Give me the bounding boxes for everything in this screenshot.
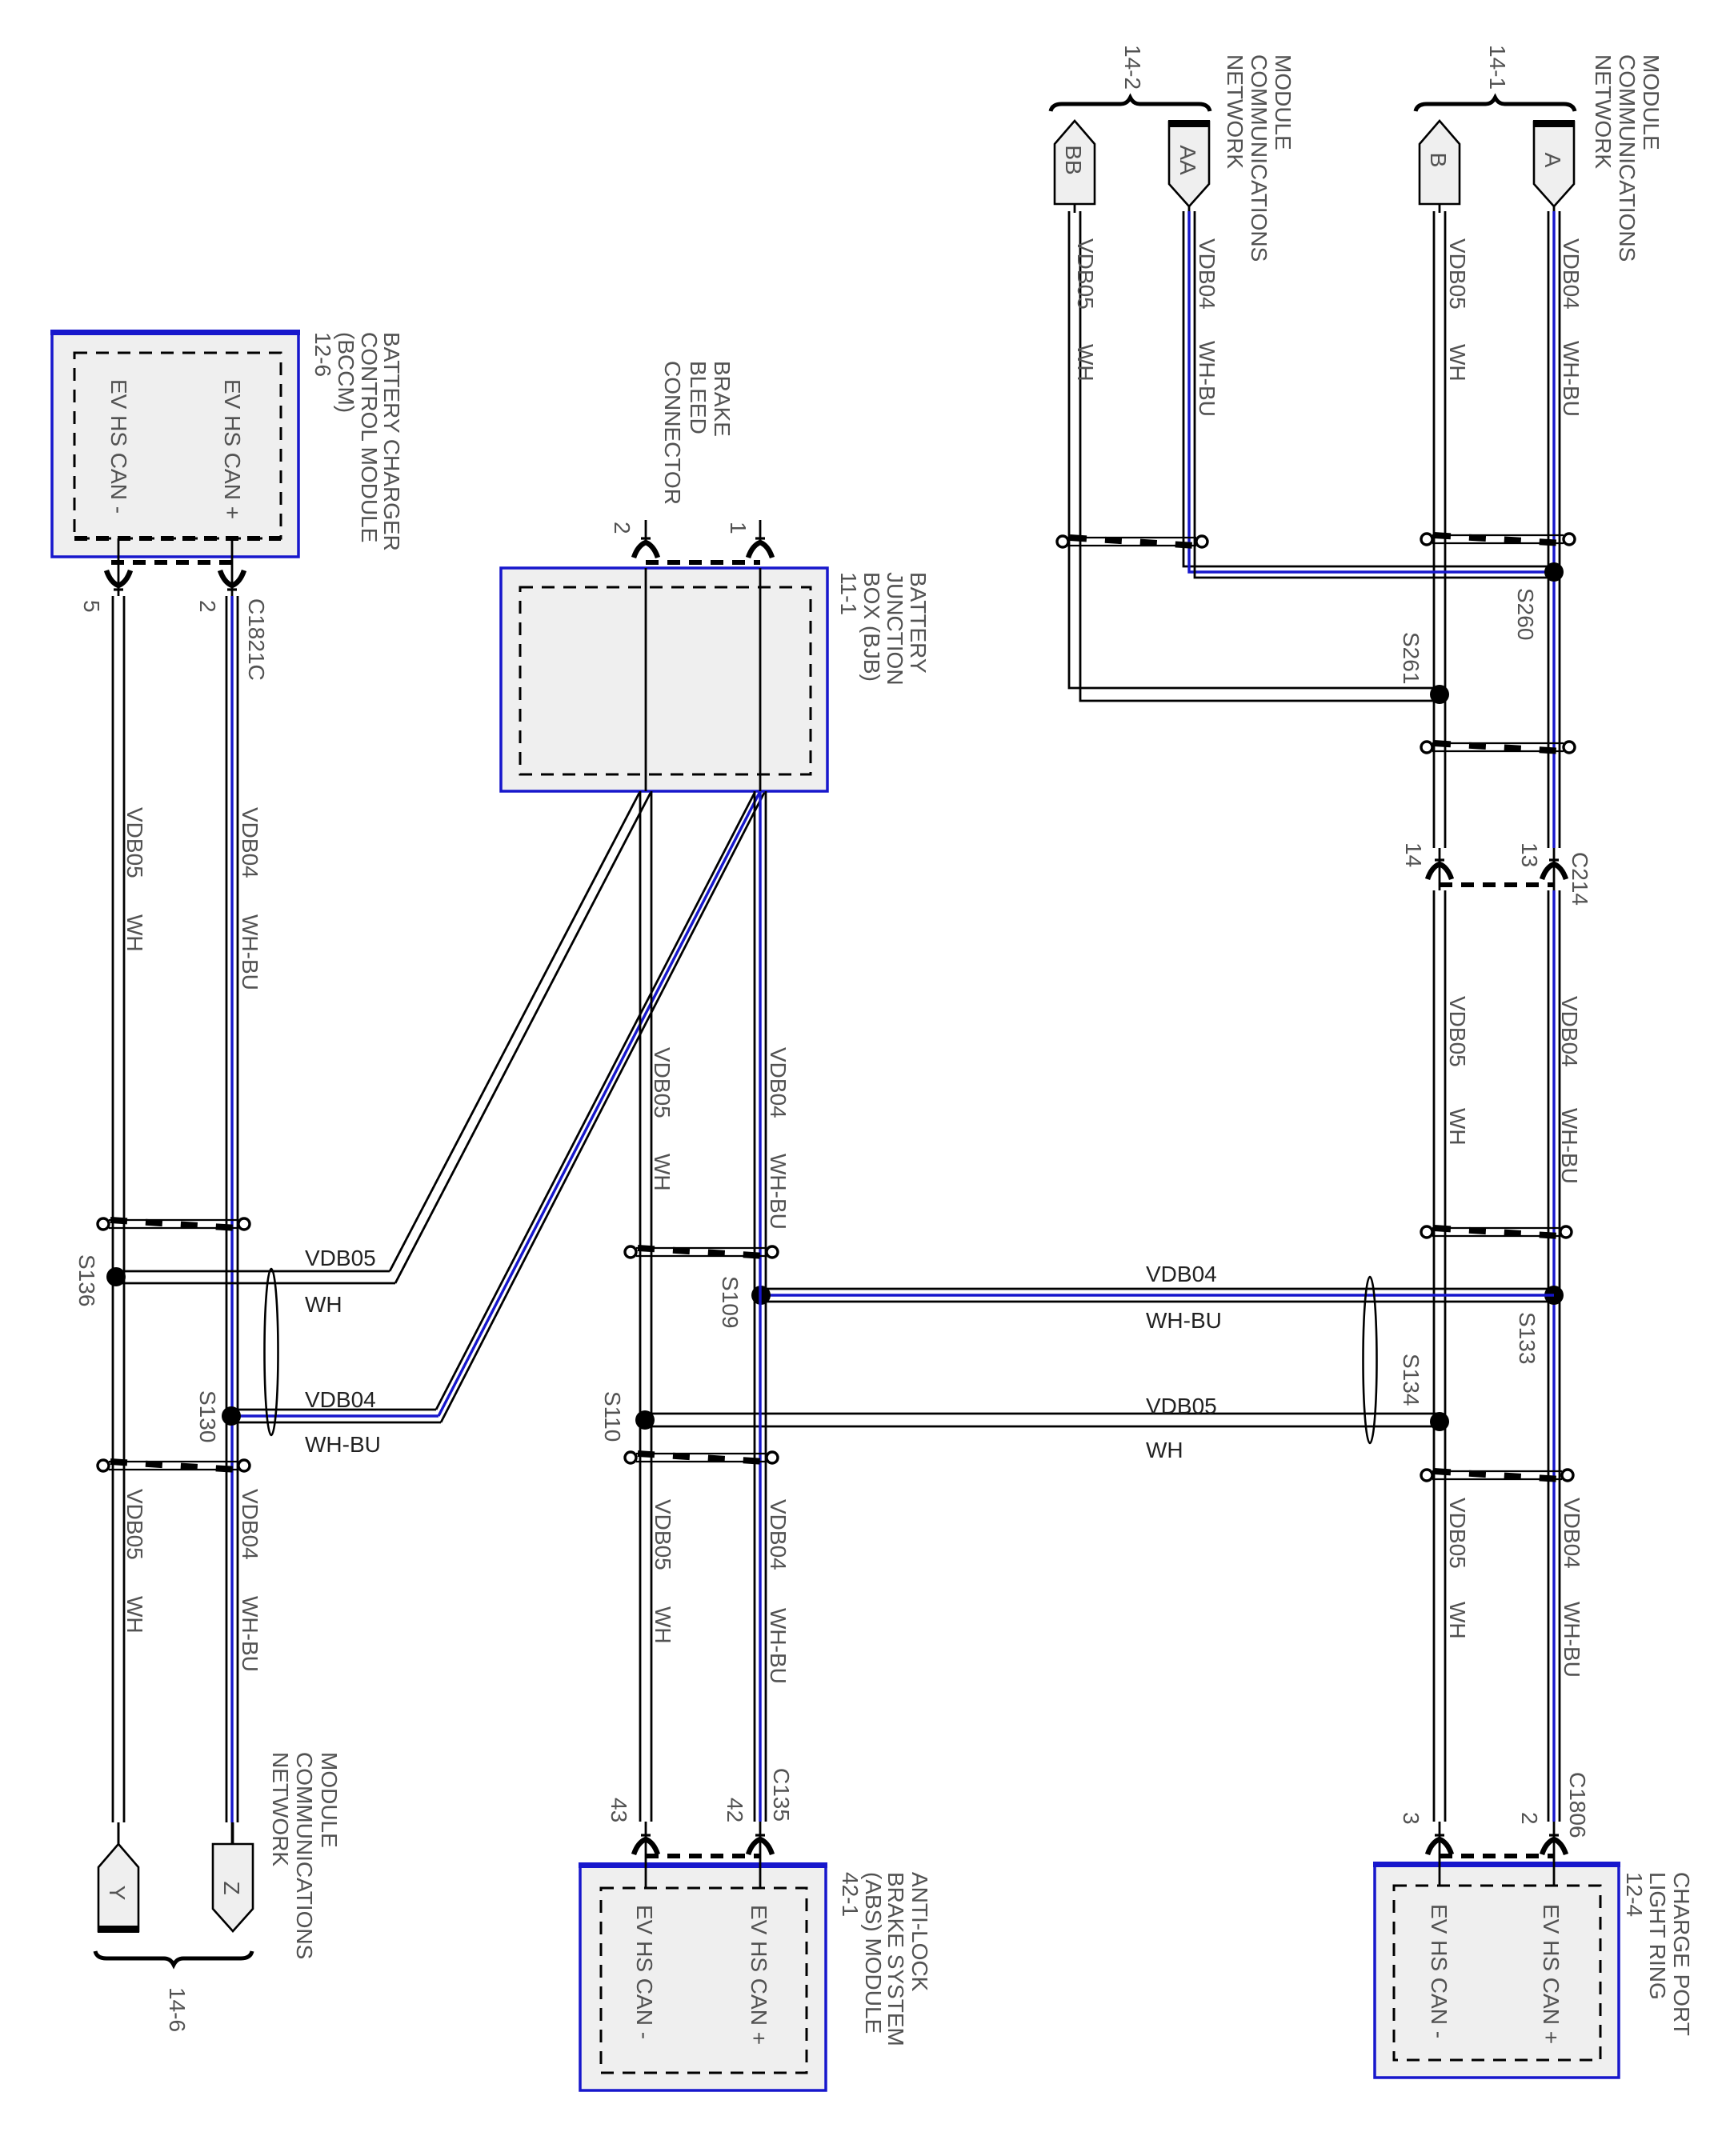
svg-text:5: 5 bbox=[79, 600, 104, 613]
svg-text:WH-BU: WH-BU bbox=[766, 1154, 791, 1230]
svg-text:WH-BU: WH-BU bbox=[238, 914, 262, 990]
svg-text:VDB04: VDB04 bbox=[1146, 1262, 1217, 1286]
svg-text:EV HS CAN -: EV HS CAN - bbox=[106, 379, 131, 514]
wire VDB05 WH from BJB pin 2 to ABS pin 43 bbox=[640, 791, 675, 1822]
svg-text:EV HS CAN +: EV HS CAN + bbox=[747, 1905, 771, 2045]
svg-text:WH-BU: WH-BU bbox=[1146, 1308, 1222, 1333]
twisted pair symbol (S109/S110 pair) bbox=[1364, 1277, 1377, 1443]
splice S260 bbox=[1513, 562, 1564, 640]
svg-text:BRAKE SYSTEM: BRAKE SYSTEM bbox=[883, 1872, 908, 2046]
module box BCCM bbox=[50, 330, 300, 557]
label BATTERY JUNCTION BOX (BJB) 11-1 bbox=[836, 572, 931, 686]
svg-text:S261: S261 bbox=[1399, 632, 1424, 684]
svg-text:S133: S133 bbox=[1515, 1312, 1540, 1364]
label BRAKE BLEED CONNECTOR bbox=[660, 361, 735, 505]
svg-text:NETWORK: NETWORK bbox=[1591, 54, 1616, 169]
splice S109 bbox=[718, 1276, 771, 1328]
brake bleed inline connector (pins 2 and 1) bbox=[610, 520, 772, 562]
svg-text:JUNCTION: JUNCTION bbox=[883, 572, 907, 686]
svg-text:COMMUNICATIONS: COMMUNICATIONS bbox=[1615, 54, 1640, 262]
svg-text:C214: C214 bbox=[1568, 852, 1592, 906]
module box CHARGE PORT LIGHT RING bbox=[1373, 1822, 1620, 2078]
svg-text:VDB05: VDB05 bbox=[1445, 996, 1470, 1067]
svg-text:2: 2 bbox=[1517, 1812, 1542, 1825]
svg-text:S136: S136 bbox=[74, 1254, 99, 1306]
splice S261 bbox=[1399, 632, 1449, 704]
svg-text:VDB05: VDB05 bbox=[305, 1246, 376, 1270]
wire VDB04 WH-BU splice S109 to splice S133 bbox=[761, 1262, 1554, 1333]
wire VDB04 WH-BU from connector AA to splice S260 bbox=[1183, 206, 1554, 578]
splice S110 bbox=[600, 1391, 655, 1442]
svg-text:C135: C135 bbox=[769, 1768, 794, 1822]
svg-text:WH: WH bbox=[305, 1292, 342, 1317]
svg-text:EV HS CAN +: EV HS CAN + bbox=[220, 379, 245, 519]
svg-text:EV HS CAN -: EV HS CAN - bbox=[1427, 1904, 1452, 2038]
label ANTI-LOCK BRAKE SYSTEM (ABS) MODULE 42-1 bbox=[838, 1872, 932, 2046]
svg-text:14-1: 14-1 bbox=[1485, 45, 1510, 90]
svg-text:(BCCM): (BCCM) bbox=[334, 332, 358, 413]
svg-text:BLEED: BLEED bbox=[686, 361, 711, 434]
svg-text:MODULE: MODULE bbox=[1639, 54, 1664, 150]
svg-text:C1806: C1806 bbox=[1565, 1772, 1590, 1838]
svg-text:S110: S110 bbox=[600, 1391, 625, 1442]
svg-text:VDB04: VDB04 bbox=[766, 1047, 791, 1118]
inline bar on AA/BB wires bbox=[1057, 536, 1207, 547]
inline bar on BCCM wires (upper) bbox=[98, 1218, 250, 1230]
svg-text:WH: WH bbox=[1445, 1108, 1470, 1146]
svg-text:BRAKE: BRAKE bbox=[710, 361, 735, 437]
svg-text:VDB05: VDB05 bbox=[1073, 238, 1098, 310]
svg-text:14: 14 bbox=[1401, 842, 1426, 867]
svg-text:S109: S109 bbox=[718, 1276, 743, 1328]
svg-text:VDB05: VDB05 bbox=[651, 1499, 675, 1570]
inline connector C1821C bbox=[79, 557, 269, 681]
svg-text:LIGHT RING: LIGHT RING bbox=[1645, 1872, 1670, 2000]
connector A (Module Communications Network 14-1) bbox=[1533, 120, 1575, 206]
svg-text:VDB05: VDB05 bbox=[1445, 238, 1470, 310]
svg-text:C1821C: C1821C bbox=[244, 598, 269, 681]
wire VDB05 WH from C214 to charge port bbox=[1434, 890, 1470, 1822]
brace 14-1 bbox=[1416, 45, 1575, 111]
svg-text:S134: S134 bbox=[1399, 1354, 1424, 1406]
wire VDB05 WH from connector B to C214 bbox=[1434, 204, 1470, 848]
label EV HS CAN - (BCCM) bbox=[106, 379, 131, 514]
svg-text:WH: WH bbox=[651, 1606, 675, 1644]
svg-text:VDB04: VDB04 bbox=[1559, 238, 1584, 310]
svg-text:WH-BU: WH-BU bbox=[766, 1608, 791, 1684]
inline bar on BCCM wires (lower) bbox=[98, 1460, 250, 1471]
svg-text:12-4: 12-4 bbox=[1622, 1872, 1647, 1917]
svg-text:VDB05: VDB05 bbox=[650, 1047, 675, 1118]
svg-text:B: B bbox=[1426, 153, 1451, 168]
connector B (Module Communications Network 14-1) bbox=[1420, 121, 1460, 204]
label EV HS CAN + (charge port) bbox=[1539, 1904, 1564, 2044]
svg-text:WH: WH bbox=[1146, 1438, 1183, 1462]
splice S136 with wire VDB05 WH to BJB bbox=[74, 791, 651, 1317]
svg-text:14-2: 14-2 bbox=[1120, 45, 1145, 90]
inline bar on A/B wires (above C214) bbox=[1421, 742, 1575, 753]
svg-text:A: A bbox=[1540, 153, 1565, 168]
inline connector C214 bbox=[1401, 842, 1592, 906]
wire VDB04 WH-BU from C214 to charge port bbox=[1548, 890, 1584, 1822]
label BATTERY CHARGER CONTROL MODULE (BCCM) 12-6 bbox=[310, 332, 404, 551]
wire VDB05 WH from connector BB to splice S261 bbox=[1069, 204, 1440, 701]
inline connector C1806 bbox=[1399, 1772, 1590, 1856]
svg-text:14-6: 14-6 bbox=[165, 1987, 190, 2032]
svg-text:3: 3 bbox=[1399, 1812, 1424, 1825]
svg-text:WH: WH bbox=[1073, 344, 1098, 382]
svg-text:WH-BU: WH-BU bbox=[1560, 1602, 1584, 1678]
splice S133 bbox=[1515, 1286, 1564, 1364]
twisted pair symbol (S136/S130 pair) bbox=[265, 1269, 278, 1435]
svg-text:COMMUNICATIONS: COMMUNICATIONS bbox=[292, 1752, 317, 1959]
svg-text:43: 43 bbox=[607, 1798, 631, 1822]
svg-text:S260: S260 bbox=[1513, 588, 1538, 640]
svg-text:VDB04: VDB04 bbox=[305, 1387, 376, 1412]
label CHARGE PORT LIGHT RING 12-4 bbox=[1622, 1872, 1694, 2036]
svg-text:AA: AA bbox=[1175, 145, 1200, 175]
svg-text:42: 42 bbox=[723, 1798, 747, 1822]
svg-text:BATTERY CHARGER: BATTERY CHARGER bbox=[379, 332, 404, 551]
svg-text:NETWORK: NETWORK bbox=[1223, 54, 1247, 169]
connector Y bbox=[98, 1822, 139, 1933]
label MODULE COMMUNICATIONS NETWORK (AA/BB) bbox=[1223, 54, 1295, 262]
svg-text:VDB05: VDB05 bbox=[122, 1489, 147, 1560]
svg-text:VDB04: VDB04 bbox=[238, 1489, 262, 1560]
label MODULE COMMUNICATIONS NETWORK (A/B) bbox=[1591, 54, 1664, 262]
svg-text:COMMUNICATIONS: COMMUNICATIONS bbox=[1247, 54, 1271, 262]
svg-text:S130: S130 bbox=[195, 1390, 220, 1442]
svg-text:13: 13 bbox=[1517, 842, 1542, 867]
svg-text:WH: WH bbox=[1445, 344, 1470, 382]
svg-text:BATTERY: BATTERY bbox=[906, 572, 931, 674]
label EV HS CAN - (charge port) bbox=[1427, 1904, 1452, 2038]
inline bar on A/B wires (upper) bbox=[1421, 534, 1575, 545]
svg-text:WH-BU: WH-BU bbox=[1559, 341, 1584, 417]
wire VDB04 WH-BU from BCCM pin 2 to connector Z bbox=[226, 596, 262, 1844]
label MODULE COMMUNICATIONS NETWORK (Y/Z) bbox=[268, 1752, 342, 1959]
svg-text:ANTI-LOCK: ANTI-LOCK bbox=[907, 1872, 932, 1992]
svg-text:11-1: 11-1 bbox=[836, 572, 861, 615]
svg-text:WH-BU: WH-BU bbox=[1195, 341, 1219, 417]
svg-text:BOX (BJB): BOX (BJB) bbox=[859, 572, 884, 682]
splice S130 with wire VDB04 WH-BU to BJB bbox=[195, 791, 765, 1457]
svg-text:WH: WH bbox=[122, 1596, 147, 1634]
label EV HS CAN + (BCCM) bbox=[220, 379, 245, 519]
inline bar on BJB wires (upper) bbox=[625, 1246, 778, 1258]
svg-text:MODULE: MODULE bbox=[317, 1752, 342, 1848]
wire VDB04 WH-BU from connector A to C214 bbox=[1548, 206, 1584, 848]
connector Z bbox=[213, 1822, 253, 1931]
svg-text:WH: WH bbox=[1445, 1602, 1470, 1639]
svg-text:VDB05: VDB05 bbox=[1445, 1498, 1470, 1569]
svg-text:WH-BU: WH-BU bbox=[238, 1596, 262, 1672]
svg-text:VDB05: VDB05 bbox=[1146, 1394, 1217, 1418]
svg-text:(ABS) MODULE: (ABS) MODULE bbox=[861, 1872, 886, 2034]
inline bar on A/B wires (above S133) bbox=[1421, 1226, 1572, 1238]
label EV HS CAN - (ABS) bbox=[632, 1905, 657, 2039]
module box ANTI-LOCK BRAKE SYSTEM (ABS) MODULE bbox=[579, 1822, 827, 2090]
svg-text:EV HS CAN +: EV HS CAN + bbox=[1539, 1904, 1564, 2044]
brace 14-6 bbox=[95, 1951, 252, 2032]
svg-text:WH-BU: WH-BU bbox=[305, 1432, 381, 1457]
svg-text:12-6: 12-6 bbox=[310, 332, 335, 377]
svg-text:WH: WH bbox=[122, 914, 147, 952]
wire VDB05 WH splice S110 to splice S134 bbox=[645, 1394, 1440, 1462]
svg-text:1: 1 bbox=[726, 522, 751, 534]
connector AA (Module Communications Network 14-2) bbox=[1168, 120, 1210, 206]
splice S134 bbox=[1399, 1354, 1449, 1431]
svg-text:VDB05: VDB05 bbox=[122, 807, 147, 878]
svg-text:2: 2 bbox=[610, 522, 635, 534]
svg-text:BB: BB bbox=[1061, 145, 1086, 174]
svg-text:Z: Z bbox=[219, 1881, 244, 1894]
svg-text:VDB04: VDB04 bbox=[1557, 996, 1582, 1067]
wire VDB05 WH from BCCM pin 5 to connector Y bbox=[113, 596, 147, 1844]
svg-text:CONTROL MODULE: CONTROL MODULE bbox=[357, 332, 382, 542]
svg-text:EV HS CAN -: EV HS CAN - bbox=[632, 1905, 657, 2039]
svg-text:42-1: 42-1 bbox=[838, 1872, 863, 1917]
wire VDB04 WH-BU from BJB pin 1 to ABS pin 42 bbox=[755, 791, 791, 1822]
svg-text:VDB04: VDB04 bbox=[1195, 238, 1219, 310]
svg-text:CHARGE PORT: CHARGE PORT bbox=[1669, 1872, 1694, 2036]
svg-text:WH: WH bbox=[650, 1154, 675, 1191]
svg-text:VDB04: VDB04 bbox=[238, 807, 262, 878]
connector BB (Module Communications Network 14-2) bbox=[1055, 121, 1095, 204]
svg-text:Y: Y bbox=[105, 1886, 130, 1901]
inline bar on A/B wires (below S134) bbox=[1421, 1470, 1573, 1481]
svg-text:VDB04: VDB04 bbox=[766, 1499, 791, 1570]
svg-text:NETWORK: NETWORK bbox=[268, 1752, 293, 1866]
inline bar on BJB wires (lower) bbox=[625, 1452, 778, 1463]
inline connector C135 bbox=[607, 1768, 794, 1856]
svg-text:2: 2 bbox=[195, 600, 220, 613]
label EV HS CAN + (ABS) bbox=[747, 1905, 771, 2045]
svg-text:WH-BU: WH-BU bbox=[1557, 1108, 1582, 1184]
brace 14-2 bbox=[1051, 45, 1210, 111]
svg-text:CONNECTOR: CONNECTOR bbox=[660, 361, 685, 505]
svg-text:VDB04: VDB04 bbox=[1560, 1498, 1584, 1569]
svg-text:MODULE: MODULE bbox=[1271, 54, 1295, 150]
module box BATTERY JUNCTION BOX (BJB) bbox=[501, 568, 827, 791]
